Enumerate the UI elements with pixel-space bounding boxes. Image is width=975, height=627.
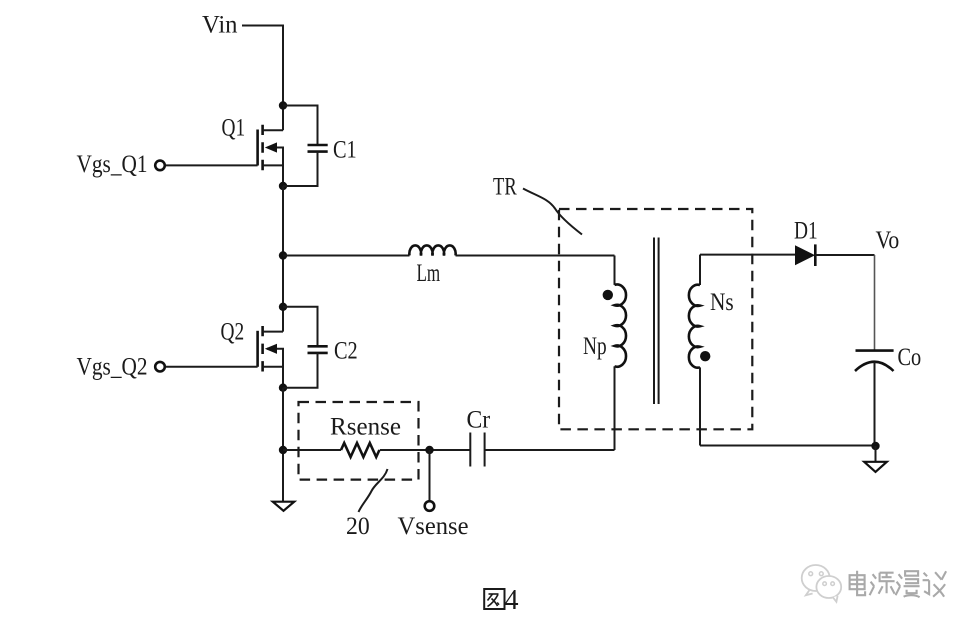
svg-text:Ns: Ns: [710, 288, 734, 316]
svg-text:D1: D1: [794, 217, 818, 245]
svg-text:20: 20: [346, 512, 370, 540]
watermark text 电源漫谈: [851, 572, 948, 599]
svg-text:Vsense: Vsense: [398, 512, 469, 540]
wire Cr to transformer primary bottom: [485, 449, 615, 451]
leader TR to box: [523, 189, 582, 235]
label figure 4: [484, 589, 504, 609]
wire secondary bottom to output ground: [700, 445, 876, 447]
capacitor Co: [856, 349, 894, 352]
wire Vo corner down to Co: [874, 255, 876, 350]
glyph 源: [870, 573, 895, 596]
watermark wechat icon: [802, 565, 841, 602]
terminal Vgs_Q2 circle: [155, 362, 165, 372]
wire D1 to Vo corner: [815, 254, 874, 256]
svg-text:Q2: Q2: [221, 318, 245, 346]
wire midpoint to Lm: [283, 255, 410, 257]
svg-text:4: 4: [505, 585, 519, 616]
svg-text:C2: C2: [334, 337, 358, 365]
svg-text:Vo: Vo: [876, 226, 900, 254]
wire Vgs_Q2 to Q2 gate: [166, 366, 258, 368]
glyph 漫: [896, 571, 920, 597]
node midpoint junction dot: [279, 251, 287, 259]
svg-text:Rsense: Rsense: [330, 413, 401, 441]
Q1 drain lead: [263, 129, 283, 131]
node output ground junction dot: [871, 442, 879, 450]
inductor Lm: [409, 245, 455, 255]
Q1 body lead with arrow: [267, 148, 283, 166]
svg-text:Lm: Lm: [417, 259, 441, 287]
svg-text:Vin: Vin: [202, 11, 238, 39]
wire Vsense drop: [429, 450, 431, 501]
svg-text:Np: Np: [583, 332, 607, 360]
terminal Vsense circle: [425, 501, 435, 511]
Q2 channel segments: [261, 326, 264, 372]
wire Lm to transformer primary: [456, 255, 615, 257]
glyph 电: [850, 571, 866, 596]
ground right: [864, 462, 887, 472]
svg-text:Cr: Cr: [467, 406, 491, 434]
transistor Q1: [258, 125, 283, 186]
wire Np bottom lead: [614, 366, 616, 450]
node Q2 drain junction dot: [279, 303, 287, 311]
winding Ns secondary: [699, 255, 701, 285]
wire Vin to Q1 drain: [242, 26, 283, 131]
wire Vgs_Q1 to Q1 gate: [166, 164, 258, 166]
wire Ns bottom lead: [699, 367, 701, 445]
capacitor C2: [283, 307, 328, 388]
diode D1: [795, 245, 815, 265]
svg-text:Vgs_Q1: Vgs_Q1: [77, 150, 148, 178]
resistor Rsense zigzag: [341, 443, 379, 457]
glyph 谈: [923, 571, 947, 597]
Q1 source lead: [263, 165, 283, 186]
node Ns polarity dot: [700, 351, 710, 361]
Q1 gate bar: [256, 130, 259, 166]
wire down to ground right: [875, 446, 877, 462]
node sense junction dot: [279, 446, 287, 454]
wire node to resistor: [283, 449, 341, 451]
capacitor C1: [283, 106, 328, 187]
node Vsense junction dot: [425, 446, 433, 454]
Q2 gate bar: [256, 331, 259, 367]
svg-text:TR: TR: [493, 173, 517, 201]
terminal Vgs_Q1 circle: [155, 161, 165, 171]
wire Ns top to D1: [700, 254, 795, 256]
node Q1 source junction dot: [279, 182, 287, 190]
ground left: [273, 502, 294, 511]
wire resistor to Cr: [380, 449, 471, 451]
Q2 source lead: [263, 367, 283, 388]
capacitor Cr: [470, 433, 484, 467]
svg-text:C1: C1: [333, 136, 357, 164]
transformer TR dashed box: [559, 209, 752, 429]
svg-text:Co: Co: [898, 343, 922, 371]
node Q2 source junction dot: [279, 384, 287, 392]
leader from 20 to box: [359, 469, 388, 512]
box 20 dashed around Rsense: [299, 402, 419, 480]
transistor Q2: [258, 326, 283, 388]
node Np polarity dot: [603, 290, 613, 300]
Q2 body lead with arrow: [267, 349, 283, 367]
wire Q2 source down to sense node: [282, 388, 284, 502]
wire Q1 source to Q2 drain: [282, 186, 284, 332]
node top junction dot: [279, 101, 287, 109]
Q2 drain lead: [263, 331, 283, 333]
svg-text:Q1: Q1: [222, 114, 246, 142]
transformer core: [654, 238, 659, 405]
winding Np primary: [614, 256, 616, 285]
Q1 channel segments: [261, 125, 264, 171]
svg-text:Vgs_Q2: Vgs_Q2: [77, 353, 148, 381]
